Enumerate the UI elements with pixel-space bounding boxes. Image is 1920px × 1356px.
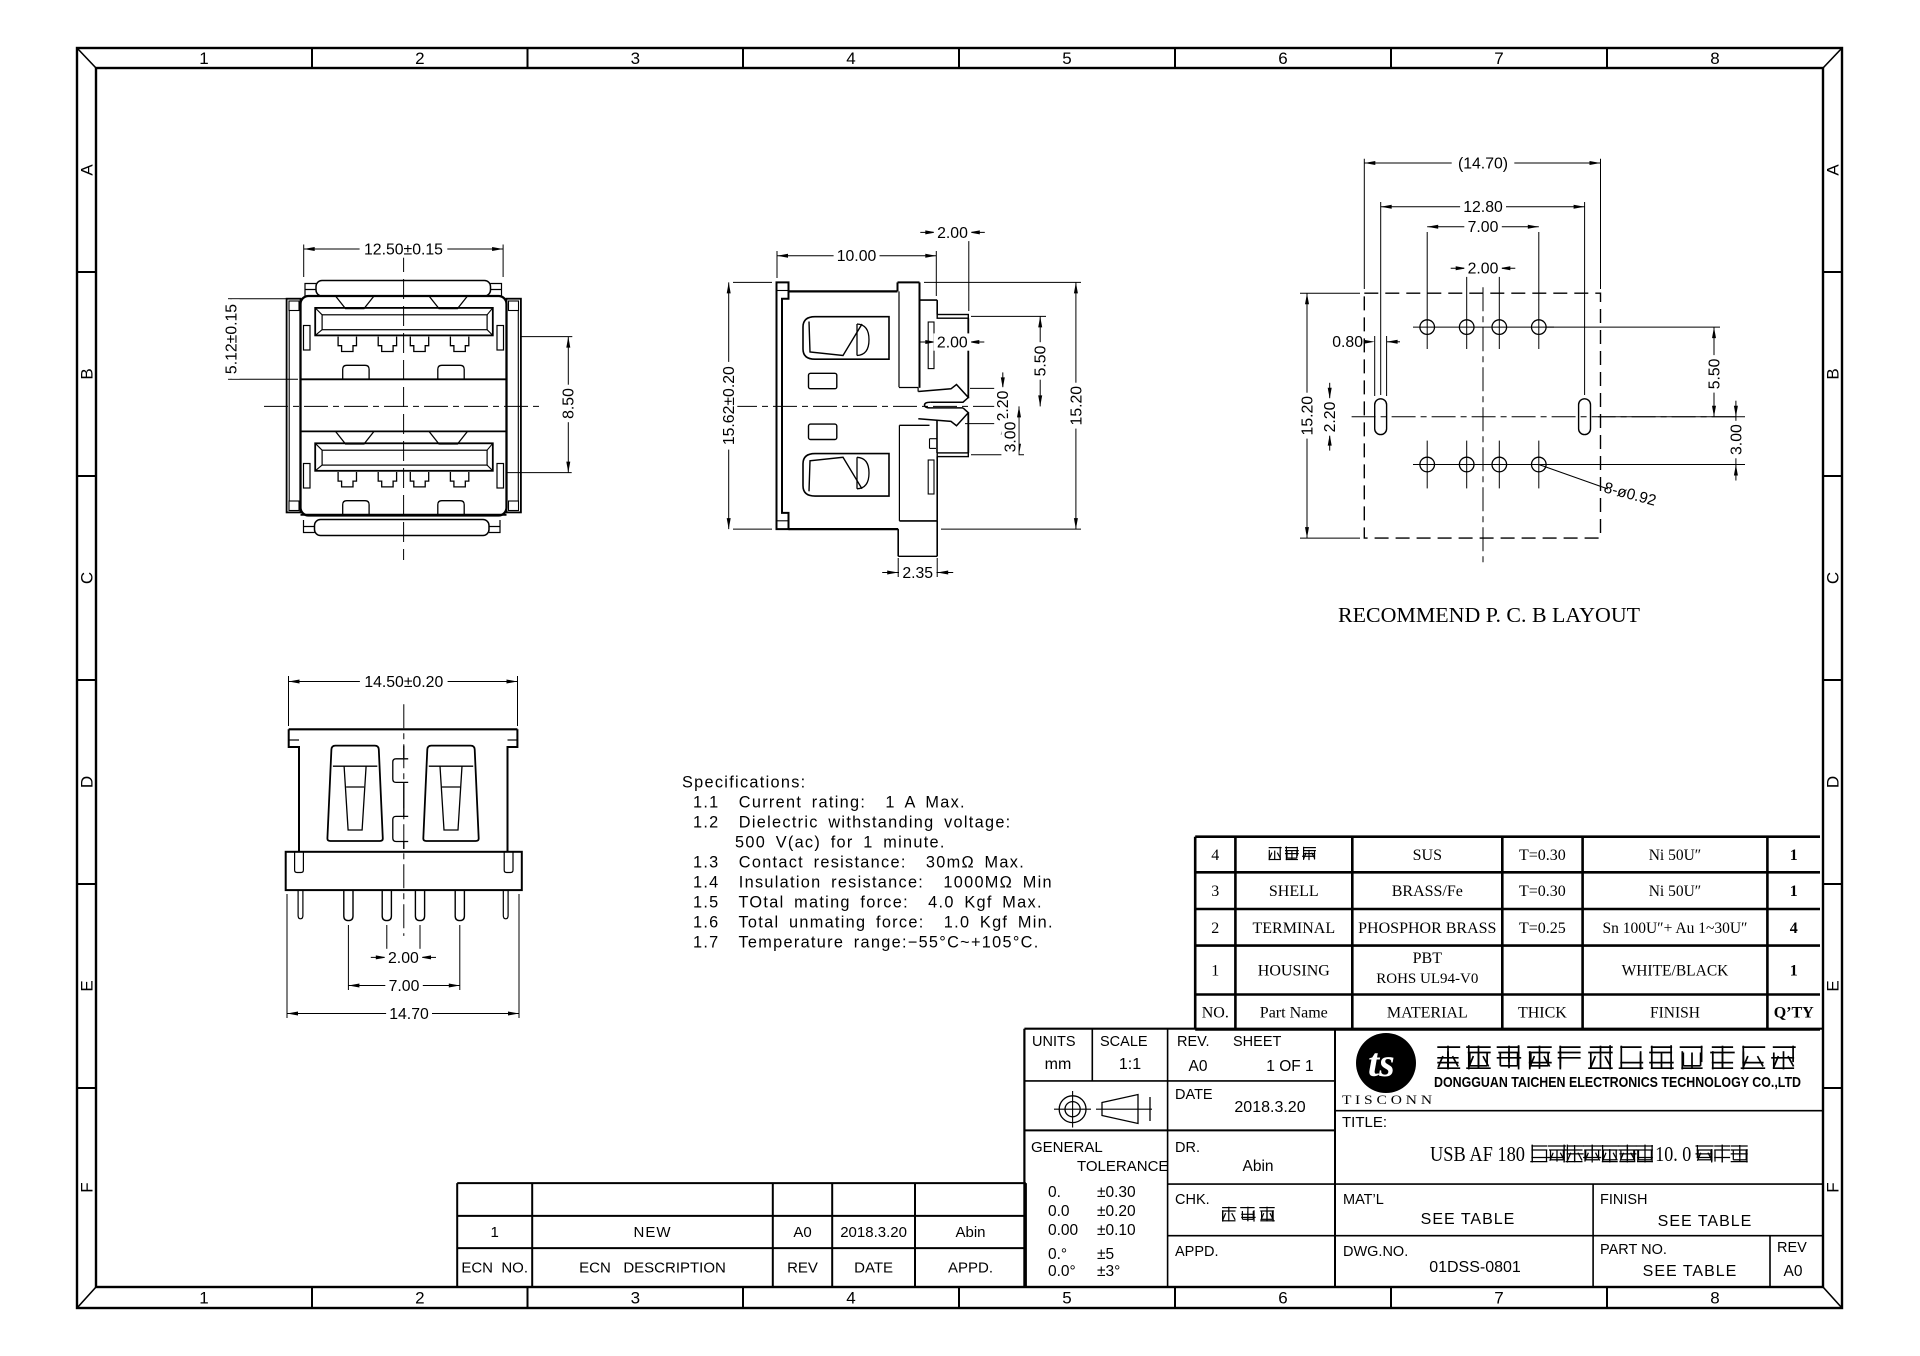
svg-text:BRASS/Fe: BRASS/Fe xyxy=(1392,883,1463,900)
svg-text:ts: ts xyxy=(1368,1040,1395,1085)
svg-text:SCALE: SCALE xyxy=(1100,1034,1148,1050)
svg-text:2.00: 2.00 xyxy=(388,950,419,967)
svg-text:T=0.30: T=0.30 xyxy=(1519,883,1566,900)
svg-text:2: 2 xyxy=(415,1289,424,1308)
svg-text:3: 3 xyxy=(1211,883,1219,900)
svg-text:2.00: 2.00 xyxy=(937,334,968,351)
svg-text:SHEET: SHEET xyxy=(1233,1034,1281,1050)
side view lower latch spring xyxy=(803,454,889,497)
svg-text:±0.30: ±0.30 xyxy=(1097,1184,1136,1201)
dimension 14.70 rear xyxy=(286,894,288,1018)
svg-text:WHITE/BLACK: WHITE/BLACK xyxy=(1622,963,1730,980)
svg-text:GENERAL: GENERAL xyxy=(1031,1139,1103,1156)
svg-text:A: A xyxy=(1824,164,1843,176)
svg-text:14.70: 14.70 xyxy=(389,1006,429,1023)
dimension 14.50±0.20 xyxy=(288,676,290,726)
svg-text:±5: ±5 xyxy=(1097,1246,1114,1263)
svg-text:1.5 TOtal mating force: 4.0: 1.5 TOtal mating force: 4.0 Kgf Max. xyxy=(693,894,1043,912)
side view lower right block xyxy=(899,424,929,426)
svg-text:CHK.: CHK. xyxy=(1175,1192,1210,1208)
svg-text:12.50±0.15: 12.50±0.15 xyxy=(364,241,443,258)
svg-text:B: B xyxy=(1824,368,1843,379)
front view middle band lines xyxy=(301,378,507,380)
dimension 7.00 rear xyxy=(347,925,349,990)
BOM row4 part name 中夹片 xyxy=(1269,847,1282,849)
zone row letters xyxy=(78,164,97,176)
dimension 2.00 side middle xyxy=(920,341,936,343)
rear view left latch tower xyxy=(327,746,382,841)
svg-text:DATE: DATE xyxy=(1175,1087,1213,1103)
pcb layout right slot xyxy=(1579,399,1591,435)
svg-text:4: 4 xyxy=(846,1289,855,1308)
svg-text:7.00: 7.00 xyxy=(389,978,420,995)
svg-text:7: 7 xyxy=(1494,1289,1503,1308)
ECN table grid xyxy=(457,1182,1026,1184)
svg-text:PART NO.: PART NO. xyxy=(1600,1242,1667,1258)
svg-text:5.50: 5.50 xyxy=(1706,358,1723,389)
company name chinese 东莞泰辰电子科技有限公司 xyxy=(1437,1046,1460,1048)
svg-text:2.00: 2.00 xyxy=(1468,261,1499,278)
svg-text:D: D xyxy=(1824,776,1843,788)
svg-text:T I S C O N N: T I S C O N N xyxy=(1342,1093,1432,1107)
rear view center seam and cutouts xyxy=(403,746,405,758)
svg-text:Q’TY: Q’TY xyxy=(1774,1005,1814,1022)
front view bottom cap xyxy=(315,520,490,536)
svg-text:MATERIAL: MATERIAL xyxy=(1387,1005,1468,1022)
svg-text:ECN DESCRIPTION: ECN DESCRIPTION xyxy=(579,1260,726,1277)
svg-text:REV: REV xyxy=(1777,1240,1807,1256)
title block CHK name 唐腾凤 xyxy=(1222,1207,1236,1209)
svg-text:10. 0: 10. 0 xyxy=(1655,1142,1691,1166)
svg-text:REV.: REV. xyxy=(1177,1034,1210,1050)
svg-text:T=0.25: T=0.25 xyxy=(1519,920,1566,937)
svg-text:MAT’L: MAT’L xyxy=(1343,1192,1384,1208)
frame corner diagonals xyxy=(77,48,96,68)
front lower port contacts xyxy=(338,472,356,487)
svg-text:PHOSPHOR BRASS: PHOSPHOR BRASS xyxy=(1358,920,1496,937)
dimension 2.20 side xyxy=(970,387,1008,389)
svg-text:±0.10: ±0.10 xyxy=(1097,1222,1136,1239)
zone row ticks xyxy=(77,271,96,273)
svg-text:1.6 Total unmating force: 1.: 1.6 Total unmating force: 1.0 Kgf Min. xyxy=(693,914,1054,932)
svg-text:3.00: 3.00 xyxy=(1728,424,1745,455)
svg-text:THICK: THICK xyxy=(1518,1005,1567,1022)
svg-text:0.0: 0.0 xyxy=(1048,1203,1070,1220)
svg-text:A0: A0 xyxy=(1784,1263,1803,1280)
svg-text:5.12±0.15: 5.12±0.15 xyxy=(223,304,240,374)
svg-text:D: D xyxy=(78,776,97,788)
svg-text:8: 8 xyxy=(1710,49,1719,68)
svg-text:1:1: 1:1 xyxy=(1119,1056,1141,1073)
svg-text:3.00: 3.00 xyxy=(1002,421,1019,452)
front view cap left notch xyxy=(305,284,316,297)
pcb layout dashed board outline xyxy=(1364,293,1600,538)
front view shell side tabs xyxy=(304,326,311,351)
dimension 15.20 side xyxy=(924,281,1081,283)
svg-text:0.80: 0.80 xyxy=(1332,334,1363,351)
label 8-Ø0.92 with leader xyxy=(1539,465,1608,490)
svg-text:15.62±0.20: 15.62±0.20 xyxy=(721,366,738,445)
svg-text:1: 1 xyxy=(1211,963,1219,980)
pcb layout bottom row holes xyxy=(1420,457,1435,472)
svg-text:4: 4 xyxy=(846,49,855,68)
svg-text:Abin: Abin xyxy=(955,1224,985,1241)
front lower port tongue slot xyxy=(315,443,493,471)
svg-text:F: F xyxy=(1824,1182,1843,1192)
dimension 5.12±0.15 xyxy=(228,298,298,300)
svg-text:±0.20: ±0.20 xyxy=(1097,1203,1136,1220)
svg-text:4: 4 xyxy=(1790,920,1798,937)
svg-text:8.50: 8.50 xyxy=(561,388,578,419)
side view front flange xyxy=(777,282,789,529)
svg-text:RECOMMEND P. C. B LAYOUT: RECOMMEND P. C. B LAYOUT xyxy=(1338,603,1640,627)
svg-text:2: 2 xyxy=(1211,920,1219,937)
svg-text:ECN NO.: ECN NO. xyxy=(461,1260,528,1277)
rear view top plate outline xyxy=(289,728,518,730)
svg-text:0.: 0. xyxy=(1048,1184,1061,1201)
svg-text:7.00: 7.00 xyxy=(1468,219,1499,236)
svg-text:HOUSING: HOUSING xyxy=(1258,963,1330,980)
svg-text:Abin: Abin xyxy=(1242,1158,1273,1175)
svg-text:APPD.: APPD. xyxy=(1175,1244,1219,1260)
svg-text:2018.3.20: 2018.3.20 xyxy=(1234,1099,1305,1116)
svg-text:Specifications:: Specifications: xyxy=(682,774,806,792)
dimension 5.50 pcb xyxy=(1546,326,1720,328)
svg-text:0.°: 0.° xyxy=(1048,1246,1067,1263)
rear view right latch tower xyxy=(423,746,478,841)
svg-text:DATE: DATE xyxy=(854,1260,893,1277)
svg-text:Ni 50U″: Ni 50U″ xyxy=(1649,883,1702,900)
BOM table grid xyxy=(1195,835,1820,838)
svg-text:TOLERANCE: TOLERANCE xyxy=(1077,1158,1168,1175)
front upper port contacts xyxy=(338,337,356,352)
svg-text:1: 1 xyxy=(1790,963,1798,980)
svg-text:2.35: 2.35 xyxy=(902,565,933,582)
svg-text:3: 3 xyxy=(631,1289,640,1308)
svg-text:E: E xyxy=(78,980,97,991)
svg-text:SEE TABLE: SEE TABLE xyxy=(1658,1213,1753,1230)
svg-text:DWG.NO.: DWG.NO. xyxy=(1343,1244,1408,1260)
svg-text:7: 7 xyxy=(1494,49,1503,68)
svg-text:2.20: 2.20 xyxy=(1322,401,1339,432)
svg-text:3: 3 xyxy=(631,49,640,68)
pcb layout vertical centerline xyxy=(1482,287,1484,566)
side view lower inner rect xyxy=(809,424,837,439)
svg-text:1: 1 xyxy=(1790,847,1798,864)
svg-text:1.7 Temperature range:−55°C~+: 1.7 Temperature range:−55°C~+105°C. xyxy=(693,934,1040,952)
rear view shell legs xyxy=(298,890,303,919)
pcb layout left slot xyxy=(1375,399,1387,435)
svg-text:2.00: 2.00 xyxy=(937,225,968,242)
svg-text:A: A xyxy=(78,164,97,176)
svg-text:FINISH: FINISH xyxy=(1650,1005,1700,1022)
front view shell bottom line xyxy=(301,514,507,516)
svg-text:Sn 100U″+ Au 1~30U″: Sn 100U″+ Au 1~30U″ xyxy=(1602,920,1747,937)
svg-text:1: 1 xyxy=(1790,883,1798,900)
front lower port hanging trapezoids xyxy=(336,431,375,444)
dimension 5.50 side xyxy=(971,315,1046,317)
dimension 8.50 xyxy=(521,336,572,338)
dimension 15.62±0.20 xyxy=(733,281,772,283)
svg-text:6: 6 xyxy=(1278,49,1287,68)
dimension 2.20 pcb xyxy=(1329,383,1331,399)
svg-text:8: 8 xyxy=(1710,1289,1719,1308)
svg-text:1.1 Current rating: 1 A Max.: 1.1 Current rating: 1 A Max. xyxy=(693,794,966,812)
svg-text:1.3 Contact resistance: 30mΩ: 1.3 Contact resistance: 30mΩ Max. xyxy=(693,854,1025,872)
front view left mounting ear xyxy=(287,299,301,513)
pcb layout top row holes xyxy=(1420,320,1435,335)
dimension 3.00 side xyxy=(971,454,1024,456)
svg-text:2018.3.20: 2018.3.20 xyxy=(840,1224,907,1241)
title block grid xyxy=(1024,1028,1823,1030)
svg-text:FINISH: FINISH xyxy=(1600,1192,1648,1208)
svg-text:SEE TABLE: SEE TABLE xyxy=(1643,1263,1738,1280)
dimension 10.00 side xyxy=(776,251,778,278)
svg-text:ROHS UL94-V0: ROHS UL94-V0 xyxy=(1376,971,1478,987)
svg-text:12.80: 12.80 xyxy=(1463,199,1503,216)
dimension 2.35 side xyxy=(897,558,899,577)
svg-text:mm: mm xyxy=(1045,1056,1072,1073)
side view upper inner rect xyxy=(809,373,837,388)
svg-text:Part Name: Part Name xyxy=(1260,1005,1328,1022)
dimension 3.00 pcb xyxy=(1546,464,1745,466)
front upper port tongue slot xyxy=(315,308,493,336)
rear view base plate xyxy=(286,852,522,890)
side view upper latch spring xyxy=(803,317,889,360)
svg-text:1.4 Insulation resistance: 1: 1.4 Insulation resistance: 1000MΩ Min xyxy=(693,874,1053,892)
dimension 12.50±0.15 xyxy=(303,245,305,278)
svg-text:DONGGUAN TAICHEN ELECTRONICS T: DONGGUAN TAICHEN ELECTRONICS TECHNOLOGY … xyxy=(1434,1074,1801,1091)
svg-text:APPD.: APPD. xyxy=(948,1260,993,1277)
svg-text:SHELL: SHELL xyxy=(1269,883,1319,900)
dimension (14.70) pcb xyxy=(1363,159,1365,289)
front view bottom cap notches xyxy=(304,520,315,533)
side view fish-fork board lock xyxy=(918,385,968,403)
rear view base plate slits xyxy=(295,852,304,873)
dimension 15.20 pcb xyxy=(1300,292,1360,294)
svg-text:DR.: DR. xyxy=(1175,1140,1200,1156)
dimension 2.00 side top xyxy=(968,236,970,311)
side view bottom terminal strip xyxy=(928,460,934,494)
front upper port hanging trapezoids xyxy=(336,296,375,309)
svg-text:14.50±0.20: 14.50±0.20 xyxy=(364,674,443,691)
svg-text:A0: A0 xyxy=(793,1224,811,1241)
svg-text:(14.70): (14.70) xyxy=(1458,155,1508,172)
svg-text:Ni 50U″: Ni 50U″ xyxy=(1649,847,1702,864)
dimension 2.00 rear xyxy=(386,925,388,962)
company logo TS xyxy=(1356,1033,1416,1093)
svg-text:2.20: 2.20 xyxy=(995,390,1012,421)
side view bottom pcb tab xyxy=(897,529,899,556)
zone column ticks xyxy=(311,48,313,68)
svg-text:NO.: NO. xyxy=(1202,1005,1229,1022)
side view top terminal pin xyxy=(937,315,968,319)
side view body outline xyxy=(789,290,898,292)
svg-text:TERMINAL: TERMINAL xyxy=(1252,920,1335,937)
svg-text:5: 5 xyxy=(1062,49,1071,68)
rear view terminal pins xyxy=(344,890,353,921)
svg-text:TITLE:: TITLE: xyxy=(1342,1114,1387,1131)
svg-text:C: C xyxy=(1824,572,1843,584)
svg-text:PBT: PBT xyxy=(1413,950,1443,967)
svg-text:B: B xyxy=(78,368,97,379)
front lower port bottom bosses xyxy=(343,501,369,515)
front view shell outline xyxy=(301,296,507,516)
svg-text:15.20: 15.20 xyxy=(1299,396,1316,436)
front view vertical centerline xyxy=(403,252,405,560)
side view bottom terminal pin xyxy=(937,453,968,457)
dimension 12.80 pcb xyxy=(1380,202,1382,395)
side view horizontal centerline xyxy=(733,405,999,407)
svg-text:1.2 Dielectric withstanding v: 1.2 Dielectric withstanding voltage: xyxy=(693,814,1012,832)
svg-text:4: 4 xyxy=(1211,847,1219,864)
svg-text:15.20: 15.20 xyxy=(1068,386,1085,426)
svg-text:0.0°: 0.0° xyxy=(1048,1263,1076,1280)
svg-text:NEW: NEW xyxy=(634,1224,672,1241)
svg-text:5.50: 5.50 xyxy=(1033,345,1050,376)
svg-text:UNITS: UNITS xyxy=(1032,1034,1076,1050)
dimension 0.80 pcb xyxy=(1374,336,1376,396)
front view top cap xyxy=(316,281,491,297)
svg-text:1: 1 xyxy=(491,1224,499,1241)
svg-text:1 OF 1: 1 OF 1 xyxy=(1266,1058,1313,1075)
svg-text:SEE TABLE: SEE TABLE xyxy=(1421,1211,1516,1228)
svg-text:5: 5 xyxy=(1062,1289,1071,1308)
rear view vertical centerline xyxy=(403,704,405,936)
svg-text:F: F xyxy=(78,1182,97,1192)
svg-text:E: E xyxy=(1824,980,1843,991)
pcb layout horizontal centerline xyxy=(1352,416,1738,418)
front view cap right notch xyxy=(491,284,502,297)
svg-text:10.00: 10.00 xyxy=(837,248,877,265)
svg-text:REV: REV xyxy=(787,1260,818,1277)
svg-text:2: 2 xyxy=(415,49,424,68)
svg-text:±3°: ±3° xyxy=(1097,1263,1120,1280)
svg-text:T=0.30: T=0.30 xyxy=(1519,847,1566,864)
title block projection symbols xyxy=(1059,1096,1086,1123)
svg-text:6: 6 xyxy=(1278,1289,1287,1308)
front view right mounting ear xyxy=(507,299,521,513)
svg-text:SUS: SUS xyxy=(1413,847,1442,864)
svg-text:500 V(ac) for 1 minute.: 500 V(ac) for 1 minute. xyxy=(735,834,946,852)
dimension 7.00 pcb xyxy=(1427,226,1539,228)
front upper port bottom bosses xyxy=(343,365,369,379)
side view top terminal strip xyxy=(928,322,934,369)
dimension 2.00 pcb xyxy=(1451,267,1467,269)
svg-text:C: C xyxy=(78,572,97,584)
svg-text:0.00: 0.00 xyxy=(1048,1222,1079,1239)
svg-text:USB AF 180: USB AF 180 xyxy=(1430,1142,1525,1166)
svg-text:1: 1 xyxy=(199,1289,208,1308)
svg-text:01DSS-0801: 01DSS-0801 xyxy=(1429,1259,1521,1276)
svg-text:1: 1 xyxy=(199,49,208,68)
svg-text:A0: A0 xyxy=(1189,1058,1208,1075)
front view horizontal centerline xyxy=(264,405,540,407)
